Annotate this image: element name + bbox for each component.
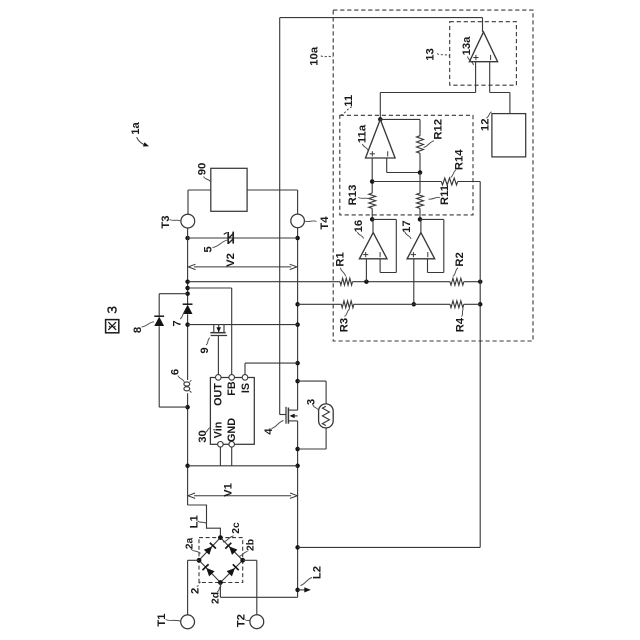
pointer 2d	[217, 586, 221, 592]
svg-text:L2: L2	[312, 566, 324, 579]
wire feedback long	[298, 182, 481, 548]
node bridge top	[218, 535, 223, 540]
wire op16 plus input	[365, 259, 367, 282]
svg-text:３: ３	[105, 304, 119, 316]
label L2	[312, 566, 324, 579]
resistor R3	[341, 301, 354, 308]
label 10a	[309, 46, 321, 66]
node right rail lamp top	[295, 379, 300, 384]
wire top from control rail to comparator 13a	[280, 18, 483, 32]
node op17 plus R3 line	[412, 302, 417, 307]
label 4	[263, 428, 275, 435]
svg-text:OUT: OUT	[212, 383, 224, 406]
diode D8	[154, 316, 164, 326]
svg-text:IS: IS	[240, 383, 252, 393]
pointer 2c	[223, 536, 234, 542]
pointer R4	[462, 309, 464, 317]
pointer L2	[301, 578, 313, 586]
label R1	[335, 252, 347, 266]
wire op17 plus input	[413, 259, 415, 305]
wire R12 branch	[380, 119, 420, 172]
bridge diode 2c side	[225, 543, 237, 555]
label 1a	[130, 122, 142, 135]
pin IS	[242, 375, 248, 381]
label T1	[156, 613, 168, 626]
label 6	[170, 369, 182, 375]
dashed box 11	[340, 115, 473, 215]
svg-text:13a: 13a	[461, 36, 473, 56]
svg-text:90: 90	[197, 163, 209, 176]
resistor R14	[441, 178, 457, 185]
svg-text:12: 12	[480, 119, 492, 132]
resistor R13	[369, 193, 376, 208]
pointer T2	[245, 620, 249, 622]
svg-text:2d: 2d	[210, 592, 221, 604]
wire bottom line	[188, 465, 298, 467]
pointer T4	[305, 220, 317, 223]
node bridge right	[240, 558, 245, 563]
wire 11a feedback	[387, 158, 420, 173]
label 12	[480, 119, 492, 132]
wire T1 leg	[188, 560, 199, 615]
pointer 2	[197, 582, 201, 587]
pointer R3	[345, 309, 350, 317]
svg-text:T3: T3	[160, 215, 172, 228]
transistor Q4	[286, 407, 298, 424]
node R12-R11 junction	[418, 170, 423, 175]
svg-text:9: 9	[199, 347, 211, 353]
label GND	[226, 418, 238, 442]
node bridge bottom	[218, 580, 223, 585]
dashed box 13	[450, 22, 517, 85]
label T2	[236, 614, 248, 627]
wire lamp branch	[298, 381, 327, 449]
label 11	[343, 95, 355, 107]
node right rail GND line	[295, 464, 300, 469]
pointer 2b	[239, 552, 248, 557]
svg-text:R2: R2	[454, 252, 466, 266]
label 13	[425, 48, 437, 61]
wire GND pin down	[231, 447, 233, 466]
wire op17 output feedback	[420, 219, 444, 272]
dimension arrow V2	[188, 264, 297, 269]
pin Vin	[218, 442, 224, 448]
wire L1 path	[188, 505, 221, 538]
svg-text:30: 30	[197, 430, 209, 443]
label 7	[172, 320, 184, 326]
pointer 6	[178, 376, 184, 383]
pointer R12	[424, 141, 435, 148]
diode D7	[183, 304, 193, 314]
node right rail mosfet9 line	[295, 322, 300, 327]
svg-text:8: 8	[132, 327, 144, 333]
svg-text:16: 16	[353, 220, 365, 233]
svg-text:7: 7	[172, 320, 184, 326]
node 11a plus R14 junction	[370, 179, 375, 184]
label 2	[190, 588, 202, 594]
wire R11 leads	[419, 173, 421, 220]
label T3	[160, 215, 172, 228]
transistor Q9	[210, 325, 227, 336]
svg-text:R11: R11	[439, 185, 451, 205]
label figure 3	[105, 304, 119, 333]
label OUT	[212, 383, 224, 406]
pointer 30	[205, 428, 210, 433]
label 3	[306, 399, 318, 405]
op-amp 13a	[469, 32, 497, 62]
wire FB path	[188, 288, 232, 375]
node left rail diode8 branch	[185, 291, 190, 296]
svg-text:13: 13	[425, 48, 437, 61]
node right rail T3T4 wire	[295, 236, 300, 241]
pointer 17	[405, 232, 411, 239]
svg-text:10a: 10a	[309, 46, 321, 66]
wire op16 output feedback	[372, 219, 396, 272]
pointer R2	[453, 268, 458, 277]
wire control rail to gate of Q4	[280, 18, 286, 415]
bridge diode 2b side	[227, 564, 239, 576]
pointer R13	[358, 198, 370, 200]
pin GND	[229, 442, 235, 448]
pointer 8	[142, 322, 155, 327]
label R12	[433, 119, 445, 140]
wire diode8 branch	[159, 294, 187, 407]
block 12	[492, 114, 526, 157]
pointer 2a	[191, 549, 201, 554]
pointer 3	[313, 405, 318, 411]
pointer R1	[341, 268, 346, 277]
lamp 3	[319, 404, 334, 428]
op-amp 17	[407, 233, 435, 259]
node right rail feedback wire	[295, 545, 300, 550]
wire R3 line	[298, 303, 481, 305]
svg-text:17: 17	[401, 220, 413, 233]
svg-text:2b: 2b	[245, 539, 256, 551]
label 5	[203, 246, 215, 252]
label 2a	[184, 538, 195, 550]
svg-text:11a: 11a	[357, 124, 369, 143]
resistor R1	[340, 278, 353, 285]
node left rail diode8 return	[185, 405, 190, 410]
svg-text:R3: R3	[339, 318, 351, 332]
label IS	[240, 383, 252, 393]
wire left rail	[187, 228, 189, 505]
svg-text:T4: T4	[319, 216, 331, 230]
label Vin	[212, 422, 224, 439]
terminal T4	[291, 214, 305, 228]
node right rail R3 tap	[295, 302, 300, 307]
resistor R12	[417, 136, 424, 154]
op-amp 16	[359, 233, 387, 259]
bridge diode 2a	[204, 543, 216, 555]
label 9	[199, 347, 211, 353]
bridge diamond wires	[199, 538, 243, 583]
resistor R4	[450, 301, 464, 308]
node left rail Vin line	[185, 464, 190, 469]
label V2	[225, 253, 237, 267]
svg-text:R4: R4	[455, 317, 467, 332]
pointer 9	[206, 338, 210, 345]
pointer R11	[429, 197, 440, 199]
label R13	[347, 185, 359, 206]
dimension arrow V1	[188, 493, 297, 498]
label 11a	[357, 124, 369, 143]
wire box90 right to T4	[247, 190, 298, 214]
label L1	[189, 515, 201, 528]
box 90	[211, 168, 247, 211]
node left rail FB tap	[185, 286, 190, 291]
label 90	[197, 163, 209, 176]
node R13 op16 output	[370, 217, 375, 222]
wire box90 left to T3	[188, 190, 211, 214]
label 17	[401, 220, 413, 233]
svg-text:R12: R12	[433, 119, 445, 140]
node R11 op17 output	[418, 217, 423, 222]
svg-text:4: 4	[263, 428, 275, 435]
label 13a	[461, 36, 473, 56]
svg-text:V2: V2	[225, 253, 237, 267]
arrow 1a	[137, 137, 149, 146]
node R3 line feedback wire	[478, 302, 483, 307]
pointer T1	[166, 620, 181, 622]
wire IS pin line	[245, 363, 298, 375]
label V1	[223, 483, 235, 497]
node T3 rail top	[185, 236, 190, 241]
svg-text:1a: 1a	[130, 122, 142, 135]
svg-text:2c: 2c	[231, 522, 242, 534]
coil L6	[184, 381, 191, 393]
label 2d	[210, 592, 221, 604]
svg-text:FB: FB	[226, 381, 238, 396]
resistor R11	[417, 193, 424, 208]
wire 11a plus input	[371, 158, 373, 219]
pointer 13a	[468, 57, 474, 66]
pointer 7	[180, 313, 185, 319]
pointer 4	[272, 421, 284, 429]
node left rail mosfet9 line	[185, 322, 190, 327]
pin OUT	[216, 375, 222, 381]
wire T2 leg	[243, 560, 257, 615]
pointer 12	[486, 112, 491, 118]
label R3	[339, 318, 351, 332]
bridge diode lower-left	[203, 564, 215, 576]
node left rail R1 tap	[185, 279, 190, 284]
bridge dashed box 2	[199, 538, 243, 583]
terminal T1	[181, 615, 195, 629]
pointer 90	[204, 177, 211, 183]
svg-text:V1: V1	[223, 483, 235, 497]
node R1 line op16 input	[364, 279, 369, 284]
label R4	[455, 317, 467, 332]
node bridge left	[197, 558, 202, 563]
pointer 11a	[363, 144, 369, 151]
pointer R14	[451, 170, 457, 178]
label 30	[197, 430, 209, 443]
pointer 10a	[321, 56, 333, 57]
pointer 13	[437, 54, 449, 57]
wire R14 line	[372, 181, 480, 183]
label R2	[454, 252, 466, 266]
svg-text:R13: R13	[347, 185, 359, 206]
ic U30 box	[210, 378, 254, 445]
label 2b	[245, 539, 256, 551]
svg-text:3: 3	[306, 399, 318, 405]
element 5 hatch marks	[224, 232, 234, 244]
svg-text:GND: GND	[226, 418, 238, 442]
label 16	[353, 220, 365, 233]
arrow L2	[298, 587, 311, 592]
pin FB	[229, 375, 235, 381]
node right rail IS line	[295, 361, 300, 366]
wire R1 line	[188, 281, 481, 283]
svg-text:R1: R1	[335, 252, 347, 266]
wire OUT pin to Q9	[217, 336, 219, 375]
label T4	[319, 216, 331, 230]
node right rail L2 arrow	[295, 588, 300, 593]
label R14	[454, 149, 466, 170]
svg-text:6: 6	[170, 369, 182, 375]
pointer 5	[213, 240, 229, 248]
svg-text:11: 11	[343, 95, 355, 107]
wire right rail	[297, 228, 299, 598]
pointer 16	[358, 232, 364, 239]
svg-text:R14: R14	[454, 149, 466, 170]
label R11	[439, 185, 451, 205]
wire Vin pin down	[219, 447, 221, 466]
wire bridge bottom to L2 rail	[220, 583, 297, 598]
pointer L1	[198, 521, 207, 524]
resistor R2	[450, 278, 464, 285]
wire T3-T4 with element 5	[188, 237, 298, 239]
op-amp 11a	[366, 119, 396, 158]
svg-text:Vin: Vin	[212, 422, 224, 439]
pointer T3	[170, 220, 181, 222]
terminal T2	[250, 615, 264, 629]
node R1 line feedback wire	[478, 279, 483, 284]
terminal T3	[181, 214, 195, 228]
pointer 11	[341, 107, 352, 115]
node right rail lamp bottom	[295, 447, 300, 452]
node 11a output	[378, 117, 383, 122]
svg-text:2a: 2a	[184, 538, 195, 550]
label 2c	[231, 522, 242, 534]
label 8	[132, 327, 144, 333]
svg-text:2: 2	[190, 588, 202, 594]
wire mosfet9 line	[188, 324, 298, 326]
wire opamp13a inputs	[380, 62, 510, 120]
dashed box 10a	[333, 10, 533, 341]
label FB	[226, 381, 238, 396]
